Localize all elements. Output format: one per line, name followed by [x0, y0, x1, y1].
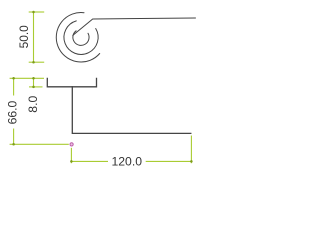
- svg-text:66.0: 66.0: [6, 100, 20, 124]
- svg-text:120.0: 120.0: [112, 154, 143, 168]
- svg-text:50.0: 50.0: [17, 25, 31, 49]
- svg-text:8.0: 8.0: [26, 96, 40, 113]
